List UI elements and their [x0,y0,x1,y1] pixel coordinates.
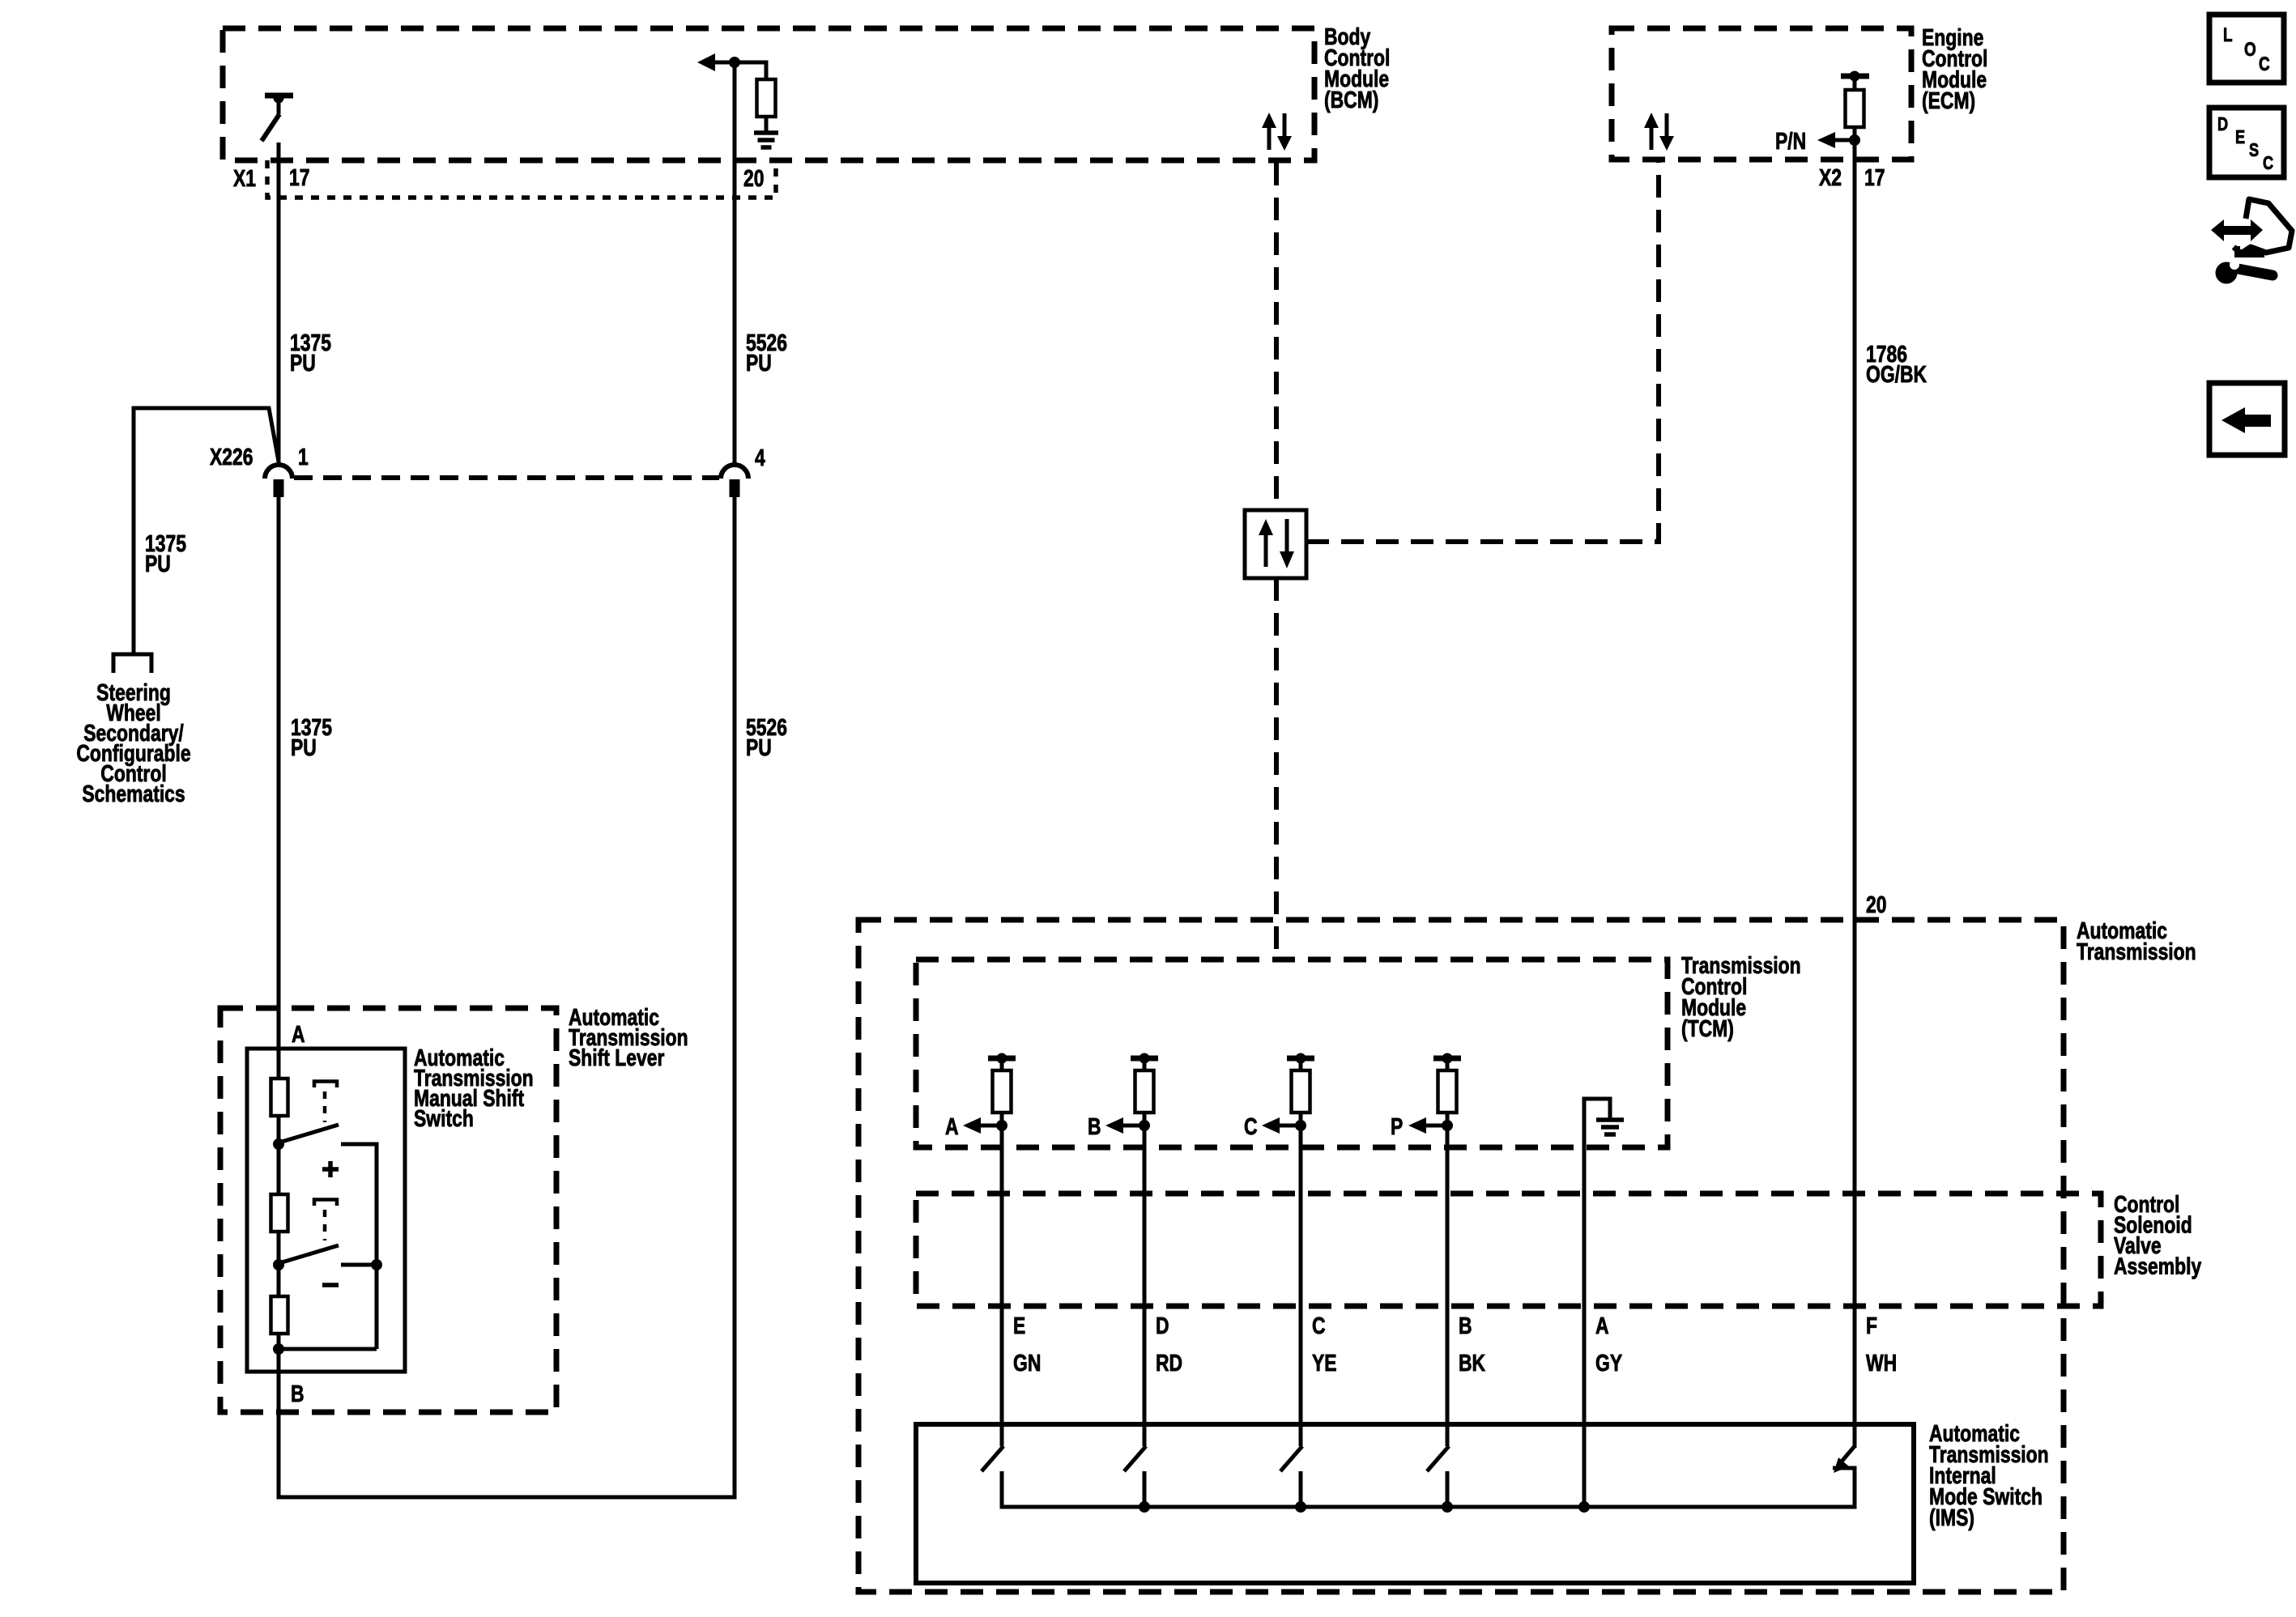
svg-text:C: C [2259,53,2270,75]
wire: supply to resistor R-C [1299,1061,1303,1070]
junction dot on right rail [371,1259,382,1270]
wire: R2 to R3 [277,1232,281,1296]
junction dot on IMS bus x=1956 [1578,1501,1590,1513]
voltage supply bar in ECM [1841,74,1869,79]
serial data arrows in gateway box [1259,519,1273,535]
serial data net: BCM to gateway box [1274,163,1279,510]
IMS common bus [1002,1505,1855,1509]
svg-text:C: C [1312,1312,1326,1338]
wire: TCM P down to IMS switch [1446,1126,1450,1446]
svg-text:OG/BK: OG/BK [1866,360,1927,387]
svg-text:PU: PU [290,349,316,376]
net line between X226 pins [294,475,719,480]
junction dot at BCM pin20 node [729,57,740,68]
P/N arrow [1817,132,1835,148]
actuator dash SW+ [323,1091,327,1122]
svg-text:P/N: P/N [1775,127,1806,154]
wire: R3 to pin B [277,1334,281,1335]
svg-text:F: F [1866,1312,1877,1338]
minus symbol [322,1283,339,1287]
wire: BCM node to resistor [765,61,769,80]
svg-text:17: 17 [1864,164,1885,190]
svg-text:A: A [945,1113,959,1139]
junction dot P/N node [1849,134,1860,146]
off-page connector symbol [113,654,151,673]
junction dot node P [1442,1120,1453,1131]
IMS lower stub A [1000,1471,1004,1509]
module box: Engine Control Module (ECM) [1612,28,1911,160]
voltage supply bar TCM A [988,1056,1016,1062]
svg-text:17: 17 [289,164,309,190]
resistor R-ECM [1846,90,1864,127]
wire 5526 PU: X226 pin4 down and loop to switch pin B [279,496,735,1497]
serial data arrows inside ECM [1644,113,1659,128]
resistor R-B (TCM) [1135,1070,1154,1113]
svg-text:Transmission: Transmission [2077,938,2196,964]
resistor R1 (shift switch) [271,1079,288,1116]
serial data arrows inside BCM [1262,113,1276,128]
svg-text:Schematics: Schematics [82,780,185,806]
IMS switch blade P [1427,1446,1449,1471]
IMS lower stub P [1446,1471,1450,1509]
junction dot node2 [273,1259,284,1270]
signal arrow B [1105,1117,1123,1134]
signal arrow P [1408,1117,1426,1134]
resistor R-C (TCM) [1292,1070,1310,1113]
resistor R2 (shift switch) [271,1194,288,1232]
svg-text:PU: PU [746,349,772,376]
module box: Automatic Transmission Shift Lever [220,1008,556,1412]
resistor R-P (TCM) [1438,1070,1457,1113]
bottom link to right rail [279,1347,377,1351]
svg-text:BK: BK [1459,1349,1485,1376]
svg-text:D: D [1156,1312,1169,1338]
voltage supply bar TCM C [1287,1056,1314,1062]
svg-text:Assembly: Assembly [2114,1253,2202,1279]
svg-text:E: E [2235,127,2245,148]
svg-text:(IMS): (IMS) [1929,1504,1974,1530]
detent bracket SW- [314,1200,337,1206]
junction dot on IMS bus x=1606 [1295,1501,1306,1513]
serial data net: ECM branch [1306,161,1659,542]
component box: Automatic Transmission Internal Mode Switch (IMS) [916,1424,1914,1583]
icon: back-arrow box [2209,383,2285,455]
IMS wiper F (with arrow) [1841,1446,1855,1462]
icon: DESC box [2209,108,2284,177]
wire: supply to resistor R-A [1000,1061,1004,1070]
module box: Transmission Control Module (TCM) [916,960,1668,1147]
plus symbol [322,1167,339,1172]
serial data gateway box [1245,510,1306,578]
signal arrow C [1262,1117,1280,1134]
svg-text:C: C [2263,153,2273,174]
switch blade SW- (downshift) [282,1245,339,1262]
wire: supply to resistor R-ECM [1853,79,1857,90]
svg-text:Switch: Switch [414,1104,474,1131]
junction dot node B [1139,1120,1150,1131]
svg-text:PU: PU [291,734,317,760]
svg-text:PU: PU [145,550,171,577]
IMS lower stub B [1143,1471,1147,1509]
voltage supply bar TCM B [1131,1056,1158,1062]
ground wire GY inside TCM [1584,1099,1610,1507]
IMS lower stub C [1299,1471,1303,1509]
connector X226 pin 4 [721,465,748,479]
svg-text:YE: YE [1312,1349,1337,1376]
svg-text:B: B [1088,1113,1101,1139]
junction dot on IMS bus x=1413 [1139,1501,1150,1513]
svg-text:X2: X2 [1819,164,1842,190]
wire 5526 PU: BCM pin20 down to X226 pin4 [733,62,737,464]
wire 1375 PU: BCM pin17 down to X226 pin1 [277,143,281,464]
svg-text:RD: RD [1156,1349,1182,1376]
switch blade SW+ (upshift) [282,1125,339,1142]
actuator dash SW- [323,1210,327,1240]
wire: TCM B down to IMS switch [1143,1126,1147,1446]
svg-text:L: L [2223,23,2233,46]
svg-text:(ECM): (ECM) [1922,87,1975,113]
right rail of shift switch [375,1144,379,1349]
junction dot node A [996,1120,1007,1131]
svg-text:D: D [2217,114,2228,135]
wire: resistor to node C [1299,1113,1303,1127]
voltage supply bar TCM P [1433,1056,1461,1062]
wire: R1 to R2 [277,1116,281,1194]
connector X226 pin 1 [265,465,292,479]
wire: steering wheel schematic stub [134,408,279,654]
resistor R-A (TCM) [993,1070,1012,1113]
svg-text:E: E [1013,1312,1025,1338]
svg-text:B: B [1459,1312,1472,1338]
junction dot node C [1295,1120,1306,1131]
component box: Automatic Transmission Manual Shift Switch [247,1049,405,1372]
svg-text:WH: WH [1866,1349,1897,1376]
svg-text:GY: GY [1595,1349,1622,1376]
svg-text:PU: PU [746,734,772,760]
wire: TCM C down to IMS switch [1299,1126,1303,1446]
svg-text:A: A [1595,1312,1609,1338]
signal arrow (left) inside BCM [697,53,715,71]
icon: LOC box [2209,15,2284,83]
module box: Body Control Module (BCM) [223,28,1314,160]
svg-text:P: P [1391,1113,1403,1139]
contact line SW- to right rail [341,1263,377,1267]
serial data net: gateway to TCM [1274,578,1279,960]
ground symbol inside BCM [754,130,778,135]
IMS switch blade C [1280,1446,1302,1471]
wire 1786 OG/BK: ECM pin17 down to IMS F wiper [1853,140,1857,1448]
wire: TCM A down to IMS switch [1000,1126,1004,1446]
wire: resistor to ground [765,117,769,134]
svg-text:B: B [291,1380,305,1406]
signal arrow A [963,1117,981,1134]
switch S1 inside BCM (pin 17 driver) [265,93,293,99]
wire: resistor to node P [1446,1113,1450,1127]
junction dot on IMS bus x=1787 [1442,1501,1453,1513]
svg-text:C: C [1244,1113,1258,1139]
ground symbol inside TCM [1596,1117,1624,1122]
wire: resistor to node B [1143,1113,1147,1127]
resistor R-BCM [757,79,776,117]
detent bracket SW+ [314,1082,337,1088]
junction dot node1 [273,1138,284,1150]
wire: resistor to P/N node [1853,127,1857,143]
IMS switch blade A [982,1446,1003,1471]
svg-text:Shift Lever: Shift Lever [569,1044,664,1070]
wire: resistor to node A [1000,1113,1004,1127]
IMS switch blade B [1124,1446,1146,1471]
svg-text:20: 20 [1866,891,1886,917]
svg-text:(BCM): (BCM) [1324,86,1378,113]
module box: Control Solenoid Valve Assembly [916,1194,2101,1306]
icon: diagnostic hand/wrench [2211,219,2263,241]
svg-text:X226: X226 [210,443,253,470]
contact line SW+ to right rail [341,1143,379,1147]
wire: supply to resistor R-B [1143,1061,1147,1070]
svg-text:20: 20 [743,164,764,191]
svg-text:(TCM): (TCM) [1681,1015,1734,1041]
resistor R3 (shift switch) [271,1296,288,1334]
svg-text:O: O [2244,38,2256,61]
svg-text:4: 4 [755,444,765,470]
IMS F contact bar [1833,1466,1857,1470]
svg-text:S: S [2249,140,2259,161]
connector strip X1 under BCM [267,160,776,198]
junction dot node3 (pin B) [273,1343,284,1355]
module box: Automatic Transmission [858,920,2064,1592]
wire: supply to resistor R-P [1446,1061,1450,1070]
svg-text:1: 1 [298,443,309,470]
svg-text:X1: X1 [233,164,256,191]
svg-text:A: A [292,1020,305,1047]
svg-text:GN: GN [1013,1349,1041,1376]
wire 1375 PU: X226 pin1 to shift switch pin A [277,496,281,1079]
